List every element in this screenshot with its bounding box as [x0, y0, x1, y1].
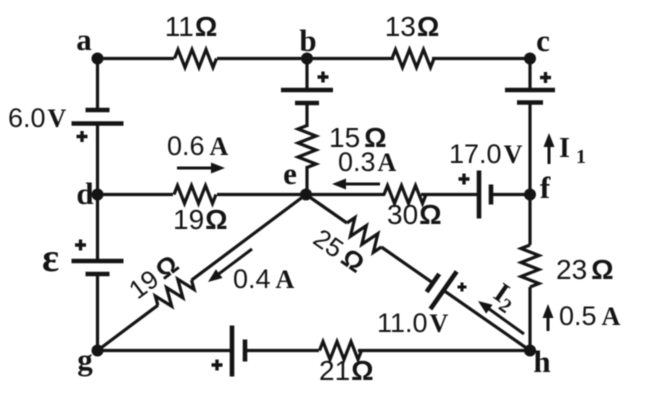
wire g to bottom battery: [98, 349, 233, 352]
plus sign of emf battery: [75, 240, 86, 251]
battery below b long plate (positive, top): [281, 88, 333, 93]
wire d to emf battery: [96, 195, 99, 262]
wire c to battery: [528, 59, 531, 91]
current arrow 0.3A (leftward): [344, 183, 380, 186]
svg-text:b: b: [299, 23, 316, 58]
resistor 25ohm diagonal (between e and h): [342, 216, 387, 255]
node f: [524, 189, 536, 201]
wire resistor 21ohm to h: [358, 349, 530, 352]
plus sign of 11.0V battery: [458, 283, 467, 292]
battery below c long plate (positive, top): [505, 88, 555, 93]
battery 17.0V long plate (positive, left): [477, 171, 482, 219]
svg-text:e: e: [283, 156, 297, 191]
node c: [524, 53, 536, 65]
wire e to diagonal resistor 19ohm: [192, 195, 307, 281]
svg-text:g: g: [77, 342, 93, 377]
svg-text:f: f: [540, 170, 551, 205]
battery 6.0V long plate (positive, bottom): [72, 121, 124, 126]
battery 17.0V short plate (negative, right): [489, 185, 494, 205]
wire e to resistor 30ohm: [306, 193, 385, 196]
battery below c short plate (negative, bottom): [517, 100, 543, 105]
plus sign of bottom battery: [212, 360, 223, 371]
wire b-c (left segment): [307, 57, 394, 60]
wire bottom battery to resistor 21ohm: [245, 349, 319, 352]
svg-text:0.4A: 0.4A: [233, 264, 295, 294]
node e: [300, 189, 312, 201]
resistor 19ohm diagonal (between e and g): [152, 273, 196, 313]
wire resistor 25ohm to 11.0V battery: [381, 247, 433, 283]
resistor 15ohm (vertical): [298, 126, 316, 168]
svg-text:11.0V: 11.0V: [377, 308, 449, 338]
battery 6.0V short plate (negative, top): [86, 108, 110, 113]
svg-text:17.0V: 17.0V: [449, 139, 523, 169]
battery below b short plate (negative, bottom): [295, 101, 319, 106]
wire a-b (top right segment): [217, 57, 307, 60]
current arrow 0.5A (upward): [547, 316, 550, 331]
wire b-c (right segment): [432, 57, 530, 60]
wire resistor 23ohm to h: [528, 287, 531, 351]
plus sign of battery below b: [318, 72, 329, 83]
battery emf short plate (negative, bottom): [86, 272, 110, 277]
bottom battery short plate (negative, right): [243, 340, 248, 362]
node a: [92, 53, 104, 65]
current arrow 0.4A (toward g): [218, 249, 252, 275]
resistor 30ohm (between e and f): [384, 186, 426, 204]
node g: [92, 345, 104, 357]
svg-text:c: c: [536, 23, 550, 58]
node b: [301, 53, 313, 65]
resistor 21ohm (between g and h): [320, 342, 362, 360]
svg-text:21Ω: 21Ω: [319, 355, 374, 386]
svg-text:0.5A: 0.5A: [559, 301, 621, 331]
svg-text:I: I: [559, 133, 570, 164]
wire 11.0V battery to h: [444, 290, 531, 350]
wire emf battery to g: [96, 274, 99, 351]
wire diagonal resistor to g: [98, 305, 159, 350]
plus sign of 17.0V battery: [459, 174, 470, 185]
wire a to 6.0V battery: [96, 59, 99, 111]
svg-text:ε: ε: [42, 235, 59, 280]
node d: [92, 189, 104, 201]
wire 17.0V battery to f: [491, 193, 530, 196]
battery 11.0V short plate (negative, e side): [427, 274, 440, 292]
bottom battery long plate (positive, left): [230, 326, 235, 377]
wire battery to f: [528, 103, 531, 195]
svg-text:1: 1: [576, 146, 586, 168]
svg-text:6.0V: 6.0V: [8, 103, 67, 133]
plus sign of 6.0V battery: [77, 131, 88, 142]
svg-text:19Ω: 19Ω: [123, 249, 184, 305]
svg-text:0.3A: 0.3A: [338, 147, 397, 177]
svg-text:19Ω: 19Ω: [173, 204, 228, 235]
current arrow I2 (toward e, parallel to diagonal): [488, 308, 524, 334]
resistor R 11ohm (between a and b): [175, 50, 217, 68]
wire f to resistor 23ohm: [528, 195, 531, 246]
svg-text:h: h: [533, 344, 550, 379]
wire resistor 19ohm to e: [217, 193, 306, 196]
wire resistor 30ohm to 17.0V battery: [421, 193, 479, 196]
resistor 13ohm (between b and c): [392, 50, 434, 68]
current arrow I1 (upward): [548, 145, 551, 164]
svg-text:a: a: [76, 22, 92, 57]
battery 11.0V long plate (positive, h side): [430, 272, 456, 310]
resistor 23ohm (vertical): [521, 245, 539, 287]
wire e to diagonal resistor 25ohm: [306, 195, 347, 224]
svg-text:d: d: [76, 176, 93, 211]
wire d to resistor 19ohm: [98, 193, 174, 196]
svg-text:13Ω: 13Ω: [385, 11, 440, 42]
wire 6.0V battery to d: [96, 124, 99, 195]
svg-text:0.6A: 0.6A: [167, 131, 229, 161]
resistor 19ohm (between d and e): [174, 186, 216, 204]
current arrow 0.6A (rightward): [177, 167, 213, 170]
wire resistor 15ohm to e: [305, 166, 308, 195]
wire battery to resistor 15ohm: [305, 103, 308, 127]
node h: [524, 345, 536, 357]
svg-text:11Ω: 11Ω: [165, 11, 218, 42]
battery emf long plate (positive, top): [72, 259, 124, 264]
svg-text:23Ω: 23Ω: [556, 254, 614, 285]
svg-text:30Ω: 30Ω: [387, 199, 442, 230]
plus sign of battery below c: [540, 72, 551, 83]
wire a-b (top left segment): [98, 57, 175, 60]
wire b to battery: [305, 59, 308, 91]
